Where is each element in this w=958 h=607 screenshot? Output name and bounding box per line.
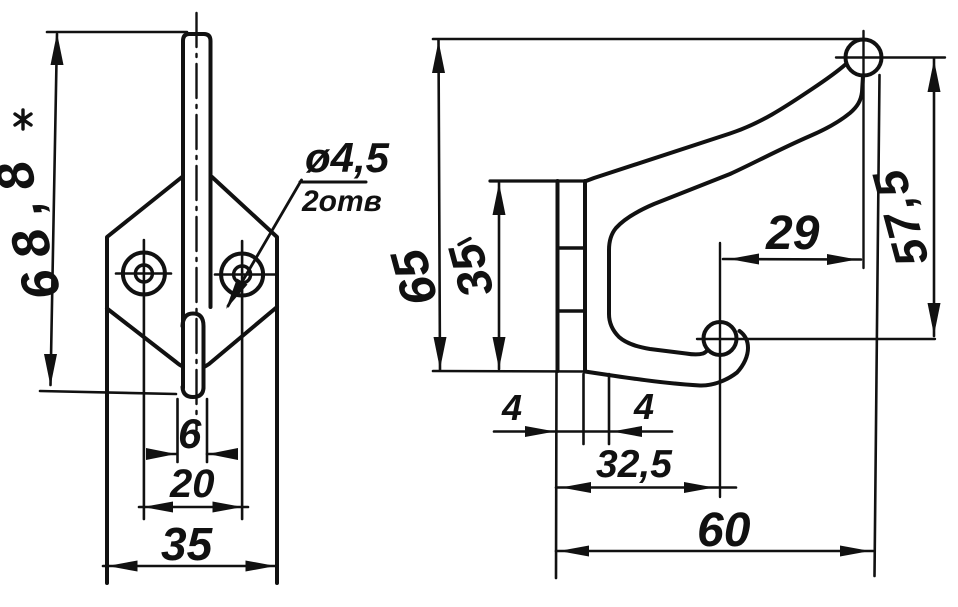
dim 4-4 dimension line	[494, 430, 672, 433]
bottom ball horizontal centerline / extension for 57,5	[697, 338, 935, 340]
hook edge extension stub	[608, 374, 611, 444]
hook shaft outline (front view)	[183, 34, 211, 388]
dim 20 arrowhead left	[143, 502, 173, 513]
minus tolerance mark	[459, 239, 470, 245]
dim 57,5 dimension line	[933, 59, 936, 336]
octagon plate right side	[212, 177, 277, 583]
dim 57,5 arrowhead up	[928, 60, 941, 92]
svg-text:60: 60	[697, 504, 751, 557]
dim 29 dimension line	[723, 258, 861, 261]
dim 35 arrowhead down	[493, 337, 506, 369]
leader line for hole callout	[228, 180, 302, 306]
svg-text:4: 4	[633, 386, 654, 427]
plate rung upper	[558, 246, 586, 249]
dim 35 arrowhead up	[493, 183, 506, 215]
dim 6 arrowhead left-pointing	[208, 448, 238, 460]
dim 68,8 bottom extension line	[40, 391, 176, 394]
top extension line	[433, 38, 863, 41]
dim 32,5 arrowhead left	[561, 482, 591, 493]
svg-text:29: 29	[765, 207, 820, 260]
svg-text:4: 4	[501, 387, 522, 428]
dim 6 left stub	[176, 399, 179, 462]
dim 68,8 arrowhead down	[44, 354, 57, 386]
plate top edge / extension	[490, 179, 585, 182]
shaft bottom rounded tip	[183, 387, 204, 397]
dim 65 arrowhead down	[434, 337, 447, 369]
shaft lower ball-tip cap arc	[183, 314, 204, 389]
dim 20 line	[139, 506, 248, 509]
dim 68,8 dimension line	[51, 34, 58, 385]
bottom ball	[704, 322, 737, 355]
octagon plate left side	[107, 177, 182, 583]
hook arm underside contour	[609, 76, 863, 354]
dim 6 line right	[207, 453, 234, 456]
dim 20 arrowhead right	[213, 502, 243, 513]
svg-text:35: 35	[161, 518, 214, 570]
hole left outer circle	[123, 253, 165, 295]
svg-text:2отв: 2отв	[301, 185, 382, 218]
dim 65 dimension line	[439, 40, 441, 370]
dim 35 dimension line (side view)	[498, 183, 501, 369]
dim 32,5 dimension line	[556, 486, 736, 489]
dim 60 arrowhead left	[559, 546, 589, 557]
dim 68,8 arrowhead up	[51, 33, 64, 65]
dim 35 line	[103, 565, 277, 568]
dim 29 arrowhead right	[827, 254, 857, 265]
dim 6 right stub	[206, 399, 209, 462]
octagon plate bottom-right diagonal	[204, 307, 277, 367]
top ball horizontal centerline	[836, 56, 945, 58]
leader underline	[300, 181, 366, 184]
svg-text:6: 6	[178, 410, 202, 457]
asterisk mark	[15, 110, 31, 129]
extension line from ball right tangent for 60	[875, 75, 880, 576]
plate rung lower	[558, 309, 586, 312]
bottom extension line	[433, 370, 587, 373]
dim 60 dimension line	[556, 550, 873, 553]
dim 60 arrowhead right	[840, 546, 870, 557]
svg-text:32,5: 32,5	[596, 443, 673, 486]
hook arm top contour	[586, 64, 846, 181]
hole left horizontal centerline	[116, 272, 171, 275]
dim 4 arrowhead right-pointing	[525, 426, 555, 437]
dim 35 arrowhead right	[246, 561, 276, 572]
dim 57,5 arrowhead down	[928, 303, 941, 335]
hole right inner circle	[234, 266, 251, 283]
plate right edge extension stub	[582, 374, 585, 444]
dim 65 arrowhead up	[432, 41, 445, 73]
hole right outer circle	[221, 254, 263, 296]
octagon plate bottom-left diagonal	[107, 309, 183, 367]
dim 32,5 arrowhead right	[684, 482, 714, 493]
dim 6 line left	[151, 453, 177, 456]
top ball	[846, 40, 882, 76]
top ball vertical centerline / extension for 29	[862, 31, 864, 268]
wall plate right edge	[583, 181, 587, 371]
dim 68,8 top extension line	[47, 31, 187, 34]
hole left inner circle	[135, 265, 152, 282]
hole left vertical centerline / extension	[143, 240, 146, 519]
dim 4 arrowhead left-pointing	[612, 426, 642, 437]
bottom ball vertical centerline / extension for 29 and 32,5	[719, 243, 721, 497]
dim 35 arrowhead left	[108, 561, 138, 572]
hole right horizontal centerline	[215, 273, 277, 276]
leader arrowhead	[226, 279, 248, 310]
svg-text:20: 20	[169, 462, 215, 506]
hook bottom contour	[585, 331, 748, 386]
hole right vertical centerline / extension	[241, 241, 244, 519]
wall plate left edge	[556, 181, 560, 371]
dim 6 arrowhead right-pointing	[146, 448, 176, 460]
dim 29 arrowhead left	[729, 254, 759, 265]
centerline of hook shaft	[195, 13, 197, 430]
plate left edge long extension	[555, 372, 558, 578]
svg-text:ø4,5: ø4,5	[305, 134, 390, 181]
